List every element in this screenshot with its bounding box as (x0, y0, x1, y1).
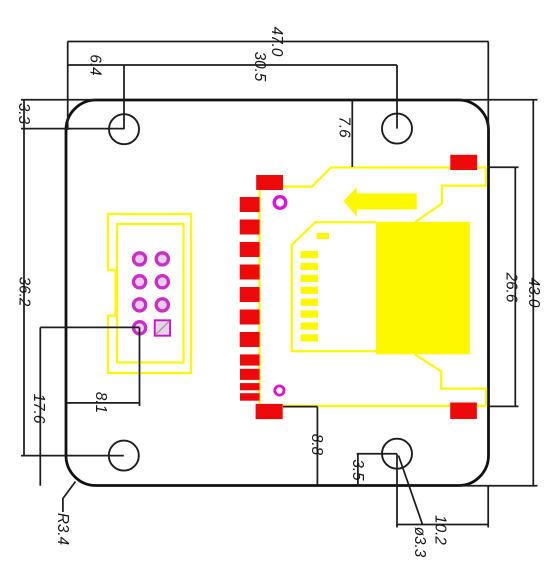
svg-text:ø3.3: ø3.3 (411, 527, 428, 558)
svg-text:8.8: 8.8 (308, 434, 325, 456)
SD pad 1 (240, 197, 260, 212)
insertion arrow (343, 187, 416, 217)
via ring top (274, 197, 286, 209)
leader diameter 3.3 (399, 456, 423, 525)
svg-text:10.2: 10.2 (432, 515, 449, 545)
header J1 outer outline (108, 214, 191, 373)
SD socket bottom-right trace (415, 354, 486, 406)
SD card outline (292, 222, 376, 351)
SD pad 4 (240, 265, 260, 280)
svg-text:30.5: 30.5 (251, 52, 268, 82)
SD contact finger 2 (301, 263, 319, 270)
board outline (66, 100, 489, 486)
extension hole TL horizontal (21, 128, 124, 130)
svg-text:47.0: 47.0 (268, 27, 285, 57)
extension pin2 column (139, 328, 141, 406)
SD contact finger 8 (301, 334, 319, 341)
SD contact finger 3 (301, 275, 319, 282)
dim 17.6 line (39, 327, 41, 485)
dim 47.0 right extension (487, 42, 489, 131)
SD pad 7 (240, 332, 260, 347)
svg-text:R3.4: R3.4 (54, 513, 71, 545)
header pin 6 pad (134, 276, 146, 288)
dim 26.6 line (514, 167, 516, 406)
svg-text:6.4: 6.4 (87, 54, 104, 75)
header pin 5 pad (156, 276, 168, 288)
SD card body block (376, 222, 470, 354)
SD contact finger 7 (301, 322, 319, 329)
SD pad 3 (240, 242, 260, 257)
dim 10.2 line (397, 524, 488, 526)
SD pad 5 (240, 287, 260, 302)
mounting hole bottom-right (382, 439, 412, 469)
SD pad 6 (240, 310, 260, 325)
leader R3.4 (63, 482, 76, 513)
SD tab pad top-left (256, 175, 283, 190)
svg-text:8.1: 8.1 (92, 392, 109, 413)
SD pad 10 (240, 383, 260, 390)
via ring bottom (275, 386, 284, 395)
SD pad 9 (240, 369, 260, 380)
extension hole BR horizontal (357, 453, 397, 455)
extension socket top right (488, 166, 519, 168)
SD pad 2 (240, 220, 260, 235)
dim 8.1 line (67, 402, 140, 404)
SD contact finger 6 (301, 311, 319, 318)
svg-text:3.3: 3.3 (15, 103, 32, 125)
mounting hole top-left (109, 114, 139, 144)
header pin 1 square pad (155, 320, 170, 335)
dim 43.0 line (532, 100, 534, 486)
mounting hole bottom-left (109, 441, 139, 471)
svg-text:26.6: 26.6 (503, 272, 520, 303)
header J1 inner outline (117, 224, 184, 363)
dim 47.0 left extension (67, 42, 69, 131)
SD write-protect dash (317, 233, 330, 239)
SD contact finger 5 (301, 299, 319, 306)
SD tab pad bottom-right (450, 403, 477, 420)
SD tab pad bottom-left (256, 404, 283, 419)
mounting hole top-right (382, 114, 412, 144)
SD contact finger 4 (301, 287, 319, 294)
svg-text:36.2: 36.2 (16, 277, 33, 307)
SD pad 11 (240, 393, 260, 401)
extension board top-left (21, 99, 97, 101)
extension hole BR vertical (396, 454, 398, 528)
extension socket bottom right (488, 405, 519, 407)
SD socket outline top and left and bottom (260, 168, 487, 406)
header pin 8 pad (134, 253, 146, 265)
svg-text:43.0: 43.0 (525, 278, 542, 308)
SD contact finger 1 (301, 251, 319, 258)
dim 30.5 and 6.4 line (68, 64, 397, 66)
dim 3.5 line (357, 454, 359, 486)
dim 3.3 and 36.2 line (23, 100, 25, 456)
dim 7.6 line (351, 100, 353, 167)
extension board corner BR (487, 486, 489, 528)
dim 8.8 line (316, 407, 318, 485)
extension board top right (460, 99, 538, 101)
SD pad 8 (240, 354, 260, 365)
svg-text:3.5: 3.5 (349, 459, 366, 481)
header pin 4 pad (134, 299, 146, 311)
dim 47.0 line (68, 41, 489, 43)
header pin 2 pad (134, 322, 146, 334)
header pin 7 pad (156, 253, 168, 265)
extension hole BL horizontal (21, 455, 124, 457)
svg-text:7.6: 7.6 (336, 116, 353, 138)
extension board bottom right (458, 485, 538, 487)
header pin 3 pad (156, 299, 168, 311)
extension hole TL (123, 65, 125, 129)
SD socket right trace (415, 167, 486, 223)
extension hole TR (396, 65, 398, 129)
extension socket bottom (283, 406, 317, 408)
SD tab pad top-right (450, 155, 477, 170)
svg-text:17.6: 17.6 (30, 394, 47, 424)
extension pin2 row (40, 326, 139, 328)
